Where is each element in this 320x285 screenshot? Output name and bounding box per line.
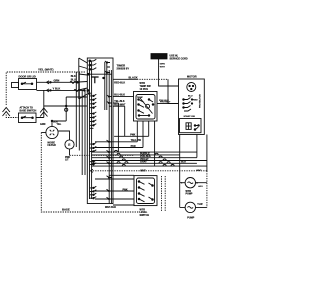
svg-text:GRN: GRN: [40, 123, 46, 126]
svg-text:BLU: BLU: [188, 95, 193, 97]
svg-text:RED: RED: [193, 100, 198, 102]
timer funnel fan: [79, 58, 88, 99]
main BLK wire: [113, 78, 137, 80]
dashed wire from lamp: [70, 154, 135, 156]
connector plug P1: [46, 126, 58, 138]
wires timer to temp switch: [113, 96, 134, 98]
svg-text:AG1: AG1: [198, 185, 203, 188]
svg-text:FILTER: FILTER: [48, 144, 56, 147]
svg-text:PROTECTOR: PROTECTOR: [200, 94, 202, 108]
svg-text:SERVICE CORD: SERVICE CORD: [170, 57, 188, 60]
wire GRN from lid switch: [37, 81, 78, 83]
svg-text:PNK: PNK: [123, 188, 128, 191]
svg-text:PUR: PUR: [131, 145, 136, 148]
timer contacts mid group: [90, 143, 97, 152]
svg-text:YLW: YLW: [197, 203, 203, 206]
cabinet dashed outline top-left: [6, 72, 86, 105]
cabinet dashed left lower: [41, 132, 46, 134]
timer inner rails: [90, 61, 92, 200]
svg-text:GRAY: GRAY: [140, 161, 147, 164]
wire GRN-BLK from lid switch: [37, 89, 85, 91]
svg-text:BLU-BLK: BLU-BLK: [114, 94, 125, 97]
timer interior bus verticals: [109, 70, 111, 204]
power cord plug: [151, 54, 167, 59]
junction dots: [77, 82, 79, 84]
wire from base switch with break chevrons: [36, 90, 44, 117]
svg-text:LIT: LIT: [65, 159, 69, 162]
water pump M2: [185, 178, 195, 188]
svg-text:YELLOW: YELLOW: [131, 139, 142, 142]
svg-text:YEL: YEL: [57, 123, 62, 126]
water level switch S3: [134, 176, 157, 206]
svg-text:RED-BLK: RED-BLK: [114, 81, 125, 84]
dashed hose lines below WL switch: [162, 176, 166, 211]
svg-text:PUMP: PUMP: [187, 217, 194, 220]
loop connector on vertical: [65, 106, 67, 121]
wire y97: [66, 97, 87, 106]
svg-text:WHT: WHT: [160, 66, 166, 68]
motor box outputs: [179, 135, 181, 183]
wire squiggles entering timer: [70, 81, 80, 91]
wire to timer y106: [44, 105, 88, 107]
timer contacts group 2: [90, 160, 97, 164]
timer contacts group 3: [90, 186, 97, 198]
wires into water level switch: [109, 174, 134, 176]
protector wire: [168, 79, 179, 103]
timer contacts right edge: [107, 95, 113, 148]
PNK wire: [114, 135, 149, 137]
crossover humps left cluster: [114, 151, 128, 167]
bus verticals into timer: [75, 72, 77, 147]
timer terminals upper-mid: [90, 94, 97, 107]
crossover humps right cluster: [155, 153, 174, 166]
break chevrons left: [3, 108, 10, 117]
svg-text:Y BLK: Y BLK: [53, 87, 61, 91]
svg-text:A: A: [196, 182, 198, 185]
wires around connector: [52, 121, 66, 127]
svg-text:10 POS: 10 POS: [140, 88, 149, 91]
svg-text:WHT-BLK: WHT-BLK: [105, 206, 116, 209]
svg-text:PUMP: PUMP: [186, 193, 193, 196]
cabinet dashed to lower lid switch: [6, 115, 18, 118]
svg-text:205528 8Y: 205528 8Y: [117, 67, 130, 71]
capacitor T symbol: [91, 77, 99, 83]
lid switch SW1: [19, 79, 37, 90]
svg-text:PNK-BLK: PNK-BLK: [159, 100, 169, 102]
svg-text:GRN: GRN: [160, 64, 165, 66]
svg-text:BASE SWITCH: BASE SWITCH: [20, 109, 37, 112]
svg-text:WHT: WHT: [196, 170, 202, 172]
svg-text:E: E: [68, 143, 71, 147]
drain motor M3: [185, 202, 195, 212]
svg-text:GRN: GRN: [54, 79, 60, 83]
svg-text:MOTOR: MOTOR: [187, 75, 197, 79]
svg-text:BLACK: BLACK: [129, 75, 138, 79]
drop verticals from upper wires: [117, 103, 119, 152]
svg-text:SWITCH: SWITCH: [140, 214, 150, 217]
timer T1: [87, 58, 113, 204]
svg-text:YEL (WHT): YEL (WHT): [38, 68, 53, 72]
lamp E1: [65, 140, 74, 149]
base switch SW2: [19, 113, 37, 123]
svg-text:DOOR OR LID: DOOR OR LID: [19, 75, 36, 79]
wire temp switch to motor: [157, 103, 168, 105]
timer terminals top: [90, 59, 97, 69]
PUR wire: [95, 147, 143, 149]
svg-text:BLU: BLU: [181, 161, 186, 164]
svg-text:START SW: START SW: [184, 115, 196, 118]
timer inner bus line: [87, 73, 112, 75]
svg-text:PNK: PNK: [130, 134, 135, 137]
svg-text:BASE: BASE: [62, 208, 70, 212]
svg-text:BLK-WHT: BLK-WHT: [114, 104, 126, 107]
YELLOW wire: [95, 141, 137, 143]
lower wire bundle: [92, 151, 197, 153]
temp switch bottom drops: [137, 121, 154, 166]
